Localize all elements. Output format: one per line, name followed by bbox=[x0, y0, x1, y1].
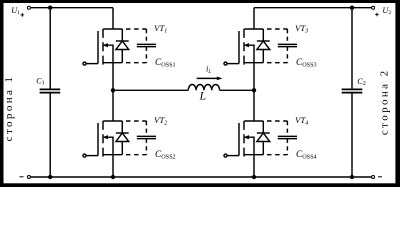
body tap wire VT1 bbox=[108, 45, 113, 63]
capacitor COSS1 bottom lead (dashed) bbox=[145, 47, 147, 63]
body tap wire VT3 bbox=[249, 45, 254, 63]
capacitor COSS4 plates bbox=[278, 135, 297, 137]
wire VT2 source lead bbox=[112, 155, 114, 177]
terminal U2 negative bbox=[372, 176, 375, 179]
wire VT1 drain lead bbox=[112, 8, 114, 29]
gate lead wire VT2 bbox=[86, 155, 98, 157]
junction C2 / bottom rail bbox=[350, 175, 354, 179]
body tap wire VT2 bbox=[108, 137, 113, 155]
channel (dashed) VT1 bbox=[102, 29, 104, 65]
capacitor COSS4 top lead (dashed) bbox=[286, 121, 288, 136]
source bar VT1 bbox=[103, 62, 122, 64]
channel (dashed) VT2 bbox=[102, 121, 104, 157]
terminal U1 positive bbox=[27, 6, 30, 9]
dashed link source to COSS2 bbox=[126, 154, 146, 156]
body diode VT1 anode lead bbox=[121, 50, 123, 63]
gate electrode bar VT3 bbox=[238, 31, 240, 64]
dashed link drain to COSS2 bbox=[126, 120, 146, 122]
body tap wire VT4 bbox=[249, 137, 254, 155]
dashed link source to COSS3 bbox=[267, 62, 287, 64]
gate electrode bar VT4 bbox=[238, 123, 240, 156]
body diode VT1 cathode lead bbox=[121, 29, 123, 41]
drain bar VT1 bbox=[103, 28, 122, 30]
gate lead wire VT4 bbox=[227, 155, 239, 157]
junction VT2 / bottom rail bbox=[111, 175, 115, 179]
wire VT4 source lead bbox=[253, 155, 255, 177]
gate terminal circle VT1 bbox=[83, 62, 86, 65]
wire VT1 source to VT2 drain (node A) bbox=[112, 63, 114, 121]
body diode VT3 triangle bbox=[257, 41, 270, 50]
transistor VT3 (MOSFET with body diode and output capacitance) bbox=[224, 29, 297, 65]
source bar VT4 bbox=[244, 154, 263, 156]
gate terminal circle VT3 bbox=[224, 62, 227, 65]
drain bar VT3 bbox=[244, 28, 263, 30]
gate terminal circle VT2 bbox=[83, 154, 86, 157]
capacitor COSS1 top lead (dashed) bbox=[145, 29, 147, 44]
transistor VT2 (MOSFET with body diode and output capacitance) bbox=[83, 121, 156, 157]
source bar VT3 bbox=[244, 62, 263, 64]
body diode VT2 triangle bbox=[116, 133, 129, 142]
channel (dashed) VT4 bbox=[243, 121, 245, 157]
dashed link source to COSS1 bbox=[126, 62, 146, 64]
junction VT4 / bottom rail bbox=[252, 175, 256, 179]
body arrow VT3 bbox=[243, 43, 249, 47]
capacitor COSS2 bottom lead (dashed) bbox=[145, 139, 147, 155]
node B junction bbox=[252, 88, 256, 92]
capacitor C1 bbox=[40, 89, 61, 92]
wire inductor to node B bbox=[220, 89, 254, 91]
svg-text:сторона 2: сторона 2 bbox=[378, 68, 390, 135]
gate lead wire VT1 bbox=[86, 63, 98, 65]
drain bar VT2 bbox=[103, 120, 122, 122]
gate terminal circle VT4 bbox=[224, 154, 227, 157]
terminal U2 positive bbox=[372, 6, 375, 9]
body diode VT4 triangle bbox=[257, 133, 270, 142]
plus sign U1 bbox=[21, 13, 25, 17]
body arrow VT4 bbox=[243, 135, 249, 139]
wire node A to inductor bbox=[113, 89, 188, 91]
transistor VT1 (MOSFET with body diode and output capacitance) bbox=[83, 29, 156, 65]
svg-text:L: L bbox=[199, 91, 206, 103]
wire top rail side 1 bbox=[30, 7, 113, 9]
body diode VT1 cathode bar bbox=[116, 40, 129, 42]
svg-text:сторона 1: сторона 1 bbox=[3, 75, 15, 142]
body diode VT3 cathode bar bbox=[257, 40, 270, 42]
channel (dashed) VT3 bbox=[243, 29, 245, 65]
body diode VT2 cathode bar bbox=[116, 132, 129, 134]
capacitor COSS3 plates bbox=[278, 43, 297, 45]
body arrow VT2 bbox=[102, 135, 108, 139]
gate electrode bar VT1 bbox=[97, 31, 99, 64]
wire C2 top lead bbox=[351, 8, 353, 89]
capacitor COSS4 bottom lead (dashed) bbox=[286, 139, 288, 155]
body diode VT4 cathode lead bbox=[262, 121, 264, 133]
wire C1 bottom lead bbox=[49, 93, 51, 177]
gate electrode bar VT2 bbox=[97, 123, 99, 156]
dashed link drain to COSS1 bbox=[126, 28, 146, 30]
body diode VT4 anode lead bbox=[262, 142, 264, 155]
wire VT3 drain lead bbox=[253, 8, 255, 29]
body diode VT1 triangle bbox=[116, 41, 129, 50]
inductor L bbox=[188, 84, 219, 90]
body diode VT2 anode lead bbox=[121, 142, 123, 155]
body arrow VT1 bbox=[102, 43, 108, 47]
minus sign U2 bbox=[378, 176, 382, 178]
capacitor COSS1 plates bbox=[137, 43, 156, 45]
body diode VT2 cathode lead bbox=[121, 121, 123, 133]
capacitor COSS3 bottom lead (dashed) bbox=[286, 47, 288, 63]
outer frame bbox=[0, 0, 400, 187]
capacitor COSS2 plates bbox=[137, 135, 156, 137]
wire VT3 source to VT4 drain (node B) bbox=[253, 63, 255, 121]
capacitor COSS3 top lead (dashed) bbox=[286, 29, 288, 44]
capacitor C2 bbox=[342, 89, 363, 92]
terminal U1 negative bbox=[27, 176, 30, 179]
wire C1 top lead bbox=[49, 8, 51, 89]
capacitor COSS2 top lead (dashed) bbox=[145, 121, 147, 136]
drain bar VT4 bbox=[244, 120, 263, 122]
body diode VT4 cathode bar bbox=[257, 132, 270, 134]
body diode VT3 anode lead bbox=[262, 50, 264, 63]
dashed link drain to COSS3 bbox=[267, 28, 287, 30]
source bar VT2 bbox=[103, 154, 122, 156]
dashed link drain to COSS4 bbox=[267, 120, 287, 122]
minus sign U1 bbox=[20, 176, 24, 178]
plus sign U2 bbox=[375, 13, 379, 17]
node A junction bbox=[111, 88, 115, 92]
wire top rail side 2 bbox=[254, 7, 372, 9]
junction C2 / top rail bbox=[350, 6, 354, 10]
wire C2 bottom lead bbox=[351, 93, 353, 177]
dashed link source to COSS4 bbox=[267, 154, 287, 156]
body diode VT3 cathode lead bbox=[262, 29, 264, 41]
junction C1 / bottom rail bbox=[48, 175, 52, 179]
wire bottom rail bbox=[30, 176, 371, 178]
transistor VT4 (MOSFET with body diode and output capacitance) bbox=[224, 121, 297, 157]
junction C1 / top rail bbox=[48, 6, 52, 10]
gate lead wire VT3 bbox=[227, 63, 239, 65]
current arrow iL bbox=[197, 77, 218, 79]
